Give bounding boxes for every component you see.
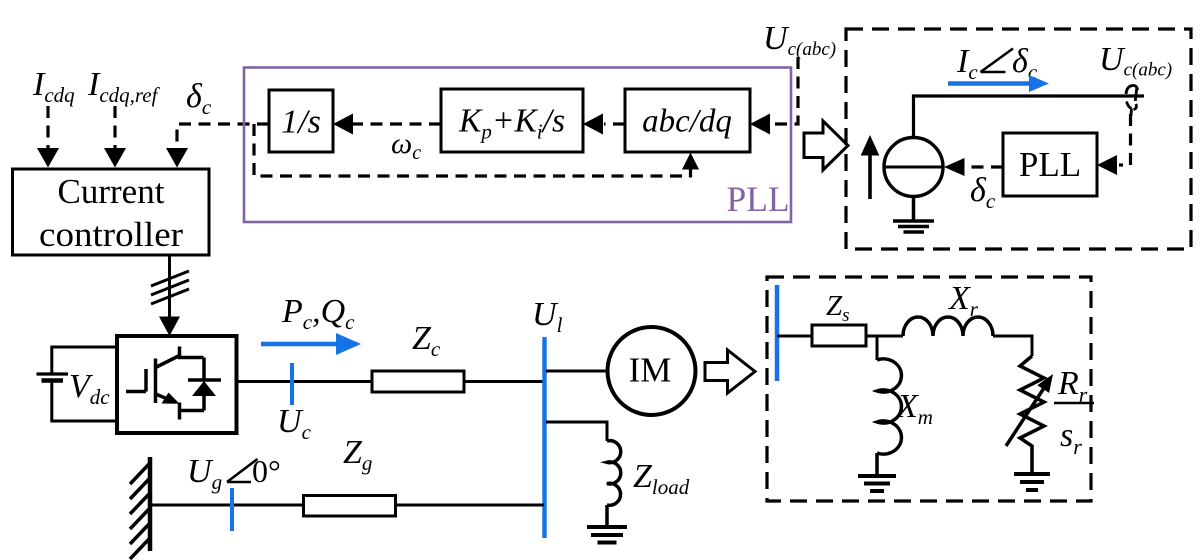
IGBT Q1 body bar xyxy=(154,359,158,404)
ground under rotor xyxy=(1014,472,1050,476)
impedance Z_s xyxy=(812,325,866,346)
battery V_dc xyxy=(37,372,69,375)
diode D1 (anti-parallel) xyxy=(202,358,206,411)
block PLL (small) xyxy=(1003,133,1097,196)
blue arrow I_c xyxy=(948,81,1031,85)
wire battery loop top xyxy=(52,347,117,374)
wire Z_s to X_r xyxy=(867,335,904,338)
IGBT Q1 collector xyxy=(156,347,204,368)
inductor X_m xyxy=(876,336,879,360)
wire converter to Z_c xyxy=(237,380,373,383)
wire Z_g to bus xyxy=(396,504,544,507)
inductor X_r xyxy=(903,317,993,336)
block Kp+Ki/s xyxy=(441,89,583,152)
dashed outline box (motor model) xyxy=(767,277,1091,501)
wire X_r to rotor branch xyxy=(993,336,1032,356)
dashed outline box (source model) xyxy=(846,29,1191,249)
three-phase slashes xyxy=(151,289,189,304)
impedance Z_c xyxy=(372,371,464,392)
current source circle xyxy=(884,138,943,197)
ground under source xyxy=(912,197,916,222)
wire controller to converter xyxy=(168,255,171,318)
wire dashed Kp to 1/s xyxy=(352,122,441,125)
ground under Z_load xyxy=(587,525,627,529)
block 1/s xyxy=(269,90,333,152)
wire to Z_s xyxy=(777,335,812,338)
ground under X_m xyxy=(858,474,896,478)
svg-text:abc/dq: abc/dq xyxy=(642,104,732,140)
IGBT Q1 gate xyxy=(126,369,146,392)
current direction up arrow xyxy=(868,153,872,199)
wire dashed PLL to source xyxy=(963,165,1003,168)
machine IM xyxy=(608,327,696,415)
IGBT Q1 emitter arrow xyxy=(156,394,173,401)
impedance Z_g xyxy=(304,496,396,517)
inductor Z_load xyxy=(607,441,621,506)
hollow arrow (PLL diagram to source model) xyxy=(804,121,848,170)
blue arrow P_c,Q_c xyxy=(261,342,339,347)
wire dashed input I_cdq xyxy=(46,106,49,150)
svg-text:Pc,Qc: Pc,Qc xyxy=(281,293,355,334)
block Current controller xyxy=(13,169,210,255)
wire dashed input I_cdq,ref xyxy=(113,106,116,150)
wire dashed Uc(abc) into abc/dq xyxy=(771,57,798,124)
PLL outline box (purple) xyxy=(244,68,791,223)
bus U_l (blue) xyxy=(542,337,546,538)
svg-text:controller: controller xyxy=(39,215,183,254)
svg-text:0°: 0° xyxy=(252,453,281,489)
grid ground wall xyxy=(148,457,153,551)
svg-text:1/s: 1/s xyxy=(281,104,321,141)
wire Z_c to bus xyxy=(464,380,544,383)
wire bus to Z_load xyxy=(546,422,607,441)
block abc/dq xyxy=(625,89,750,152)
wire dashed abc/dq to Kp xyxy=(604,122,625,125)
node U_c (blue tick) xyxy=(290,363,294,405)
svg-text:Kp+Ki/s: Kp+Ki/s xyxy=(458,103,565,144)
svg-text:PLL: PLL xyxy=(1019,145,1081,184)
node U_g (blue tick) xyxy=(230,488,234,531)
bus tick (blue) xyxy=(775,285,780,381)
svg-text:PLL: PLL xyxy=(727,179,790,219)
wire wall to Z_g xyxy=(150,504,303,507)
variable resistor R_r/s_r xyxy=(1020,356,1044,452)
wire dashed feedback delta_c to abc/dq xyxy=(254,124,684,176)
wire arrow into converter xyxy=(159,317,180,337)
wire battery loop bottom xyxy=(52,381,117,422)
svg-text:Current: Current xyxy=(58,172,165,211)
measurement hook xyxy=(1126,85,1138,94)
hollow arrow (IM to model) xyxy=(705,350,755,393)
wire dashed measurement into PLL xyxy=(1119,114,1131,165)
wire bus to IM xyxy=(546,370,609,373)
wire dashed delta_c into controller xyxy=(177,124,269,150)
wire source to measurement point xyxy=(914,96,1145,138)
converter box xyxy=(117,336,237,433)
svg-text:IM: IM xyxy=(629,351,672,390)
